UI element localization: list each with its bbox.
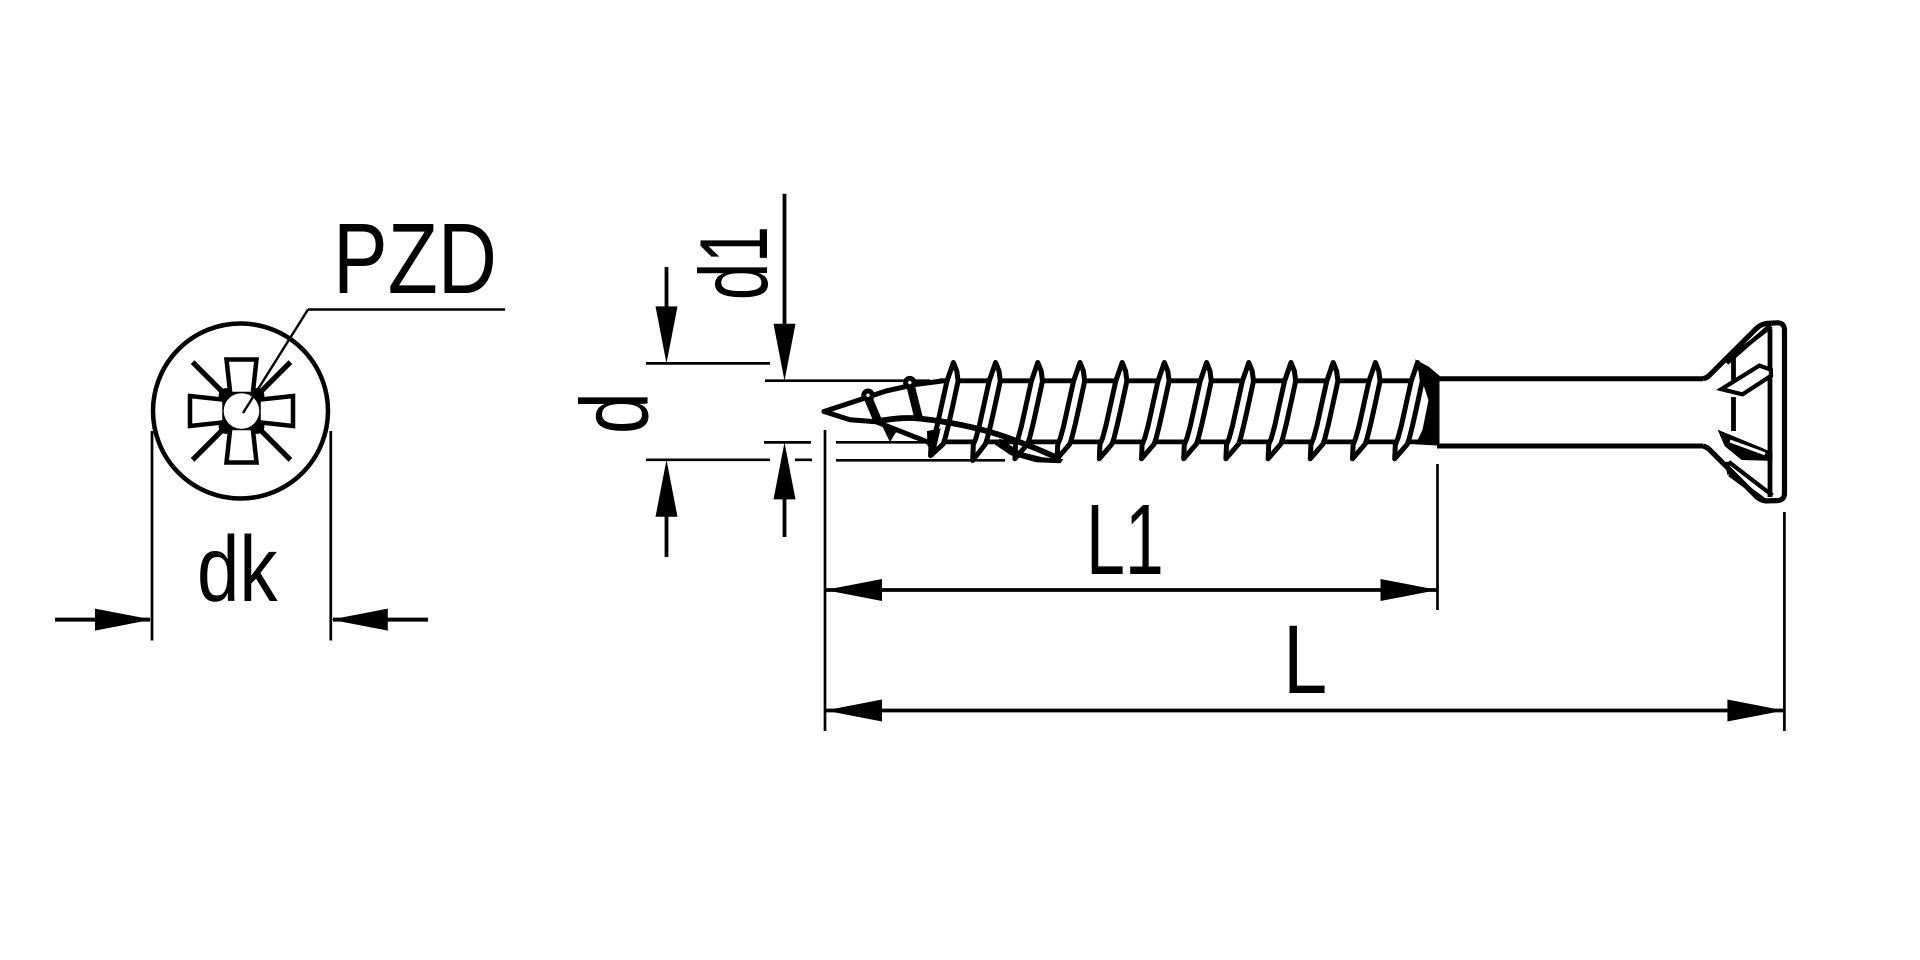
svg-text:PZD: PZD [333, 203, 497, 315]
svg-text:dk: dk [197, 518, 278, 622]
svg-text:d1: d1 [680, 226, 788, 300]
svg-text:d: d [562, 392, 669, 434]
svg-text:L: L [1283, 606, 1327, 714]
svg-text:L1: L1 [1086, 485, 1164, 596]
